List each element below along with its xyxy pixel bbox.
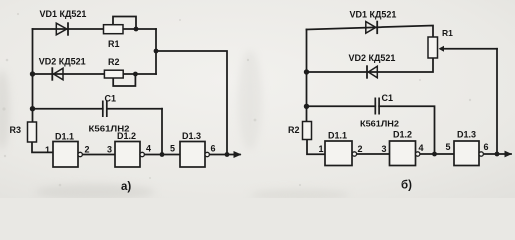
wire: R1 wiper loop bbox=[113, 17, 136, 30]
wire: R1 right lead to corner bbox=[123, 28, 156, 30]
svg-text:5: 5 bbox=[445, 142, 450, 152]
wire: D1.2 out to D1.3 in, circuit b bbox=[420, 153, 454, 155]
svg-text:D1.3: D1.3 bbox=[182, 131, 201, 141]
svg-text:3: 3 bbox=[381, 144, 386, 154]
svg-text:D1.2: D1.2 bbox=[117, 131, 136, 141]
wire: left rail of circuit b bbox=[306, 30, 308, 122]
svg-text:D1.3: D1.3 bbox=[457, 130, 476, 140]
resistor R3 (circuit a) bbox=[28, 122, 37, 142]
svg-text:5: 5 bbox=[170, 144, 175, 154]
wire: D1.1 out to D1.2 in, circuit b bbox=[357, 153, 390, 155]
junction dot: C1 at gate node (a) bbox=[160, 152, 165, 157]
wire: R2 wiper loop bbox=[113, 74, 135, 86]
svg-text:D1.1: D1.1 bbox=[55, 132, 74, 142]
svg-text:C1: C1 bbox=[105, 94, 117, 104]
svg-text:2: 2 bbox=[358, 144, 363, 154]
svg-text:6: 6 bbox=[484, 142, 489, 152]
wire: feedback from node to output, circuit a bbox=[156, 51, 227, 155]
junction dot: rail at C1 row (a) bbox=[30, 106, 35, 111]
wire: top wire of circuit b bbox=[307, 26, 434, 38]
svg-text:R3: R3 bbox=[10, 125, 22, 135]
wire: C1 row of circuit b bbox=[307, 106, 435, 154]
svg-text:C1: C1 bbox=[382, 93, 394, 103]
capacitor C1 (circuit a) bbox=[103, 101, 107, 118]
svg-text:D1.2: D1.2 bbox=[393, 130, 412, 140]
svg-text:VD1 КД521: VD1 КД521 bbox=[40, 9, 87, 19]
wire: R2 bottom to D1.1 input, circuit b bbox=[307, 140, 325, 155]
svg-text:6: 6 bbox=[211, 144, 216, 154]
inverter gate D1.1 (circuit a) bbox=[53, 142, 82, 168]
svg-text:R2: R2 bbox=[288, 125, 300, 135]
wire: R3 bottom to D1.1 input bbox=[32, 142, 53, 152]
svg-text:D1.1: D1.1 bbox=[328, 131, 347, 141]
inverter gate D1.3 (circuit b) bbox=[454, 141, 483, 166]
junction dot: rail at VD2 row (a) bbox=[30, 71, 35, 76]
junction dot: wiper at output (b) bbox=[495, 152, 500, 157]
output arrow (circuit b) bbox=[505, 151, 513, 158]
diode VD2 (circuit b) bbox=[367, 65, 377, 78]
svg-text:VD2 КД521: VD2 КД521 bbox=[39, 57, 86, 67]
wire: C1 row of circuit a bbox=[33, 108, 163, 110]
svg-text:R1: R1 bbox=[442, 28, 453, 38]
resistor R2 (circuit a) bbox=[104, 70, 123, 78]
wire: vertical tie of R1,R2 right ends bbox=[155, 29, 157, 74]
svg-text:VD2 КД521: VD2 КД521 bbox=[349, 53, 396, 63]
wire: left rail of circuit a bbox=[32, 29, 34, 122]
wiper arrowhead of R1 (circuit b) bbox=[439, 46, 444, 52]
inverter gate D1.2 (circuit a) bbox=[115, 142, 144, 168]
svg-text:4: 4 bbox=[419, 143, 424, 153]
resistor R1 (circuit a) bbox=[104, 25, 124, 34]
wire: D1.3 output line, circuit b bbox=[483, 153, 511, 155]
junction dot: wiper tie R2 (a) bbox=[133, 72, 138, 77]
inverter gate D1.3 (circuit a) bbox=[180, 142, 209, 168]
inverter gate D1.1 (circuit b) bbox=[325, 141, 357, 166]
wire: D1.2 out to D1.3 in, circuit a bbox=[144, 154, 180, 156]
svg-text:VD1 КД521: VD1 КД521 bbox=[350, 10, 397, 20]
svg-text:К561ЛН2: К561ЛН2 bbox=[360, 119, 399, 129]
junction dot: rail at VD2 row (b) bbox=[304, 69, 309, 74]
capacitor C1 (circuit b) bbox=[375, 98, 379, 115]
svg-text:б): б) bbox=[401, 180, 412, 192]
wire: R2 right lead bbox=[123, 73, 156, 75]
svg-text:3: 3 bbox=[107, 145, 112, 155]
svg-text:1: 1 bbox=[318, 144, 323, 154]
wire: wiper drop to output, circuit b bbox=[496, 49, 498, 154]
junction dot: R1-R2 common node (a) bbox=[154, 49, 159, 54]
svg-text:1: 1 bbox=[45, 145, 50, 155]
diode VD1 (circuit a) bbox=[56, 22, 68, 35]
wire: D1.3 output line, circuit a bbox=[209, 154, 240, 156]
diode VD2 (circuit a) bbox=[52, 67, 63, 80]
svg-text:R2: R2 bbox=[108, 57, 120, 67]
wire: VD2 row of circuit a bbox=[33, 73, 106, 75]
wire: D1.1 out to D1.2 in, circuit a bbox=[82, 154, 115, 156]
diode VD1 (circuit b) bbox=[366, 21, 377, 34]
svg-text:R1: R1 bbox=[108, 39, 120, 49]
svg-text:а): а) bbox=[121, 181, 131, 193]
junction dot: C1 at gate node (b) bbox=[432, 152, 437, 157]
wire: R1 wiper line, circuit b bbox=[441, 48, 497, 50]
resistor R2 (circuit b) bbox=[303, 122, 312, 140]
wire: C1 drop to gate node, circuit a bbox=[161, 109, 163, 155]
svg-text:4: 4 bbox=[146, 144, 151, 154]
svg-text:2: 2 bbox=[85, 145, 90, 155]
junction dot: feedback at output (a) bbox=[225, 152, 230, 157]
junction dot: wiper tie R1 (a) bbox=[134, 27, 139, 32]
wire: top wire of circuit a bbox=[33, 28, 105, 30]
potentiometer R1 (circuit b) bbox=[428, 37, 438, 58]
junction dot: rail at C1 row (b) bbox=[304, 104, 309, 109]
output arrow (circuit a) bbox=[234, 151, 242, 158]
wire: VD2 row of circuit b bbox=[307, 58, 434, 72]
inverter gate D1.2 (circuit b) bbox=[390, 141, 420, 166]
